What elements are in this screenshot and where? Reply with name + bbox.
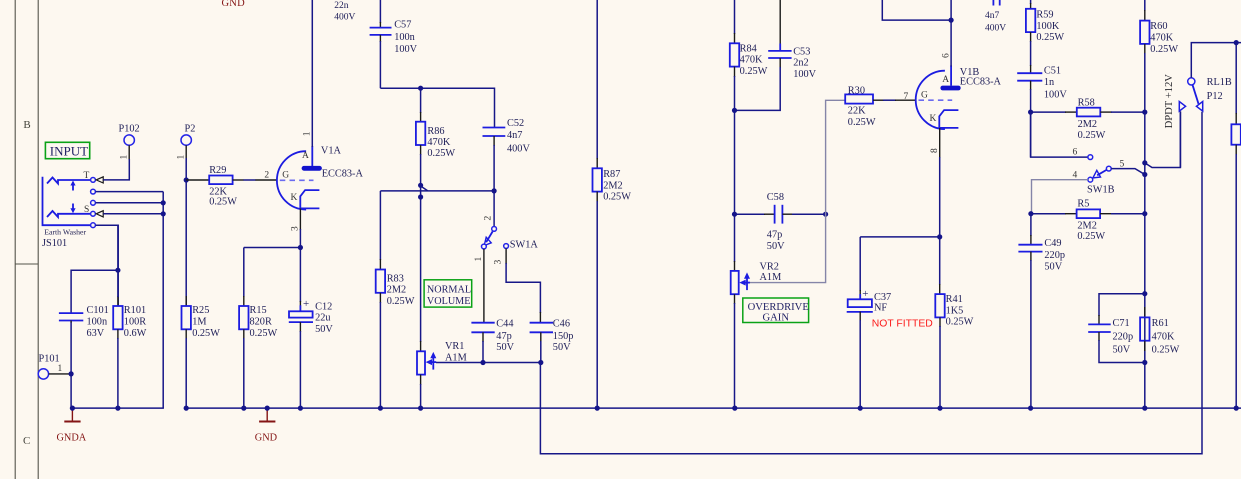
wire C57 bottom to C52 top [380, 88, 494, 127]
svg-text:+: + [303, 298, 309, 310]
switch SW1B contact 6 stub [1031, 112, 1093, 159]
svg-text:8: 8 [930, 148, 940, 153]
svg-text:R61: R61 [1152, 318, 1169, 329]
svg-text:3: 3 [290, 226, 300, 231]
wire VR2 wiper riser to R30 [749, 100, 846, 282]
capacitor C12 [289, 248, 334, 409]
ground GND (mid) [255, 408, 278, 443]
svg-text:P101: P101 [39, 354, 60, 365]
svg-text:C57: C57 [394, 20, 411, 31]
node C58 left junction [732, 212, 737, 217]
frame left border lines [15, 0, 38, 479]
wire P2 to R29 node and down to R25 [185, 158, 187, 306]
svg-text:A: A [302, 151, 309, 161]
svg-text:2M2: 2M2 [603, 180, 622, 191]
wire relay left contact to switch node [1179, 111, 1181, 167]
svg-text:A1M: A1M [760, 272, 782, 283]
wire V1B cathode node [860, 236, 940, 238]
svg-text:RL1B: RL1B [1207, 77, 1232, 88]
wire V1B anode supply [882, 0, 951, 67]
node V1B anode junction [949, 18, 954, 23]
svg-text:G: G [921, 91, 928, 101]
svg-text:4n7: 4n7 [507, 130, 522, 141]
svg-text:C: C [23, 435, 30, 447]
svg-text:2n2: 2n2 [793, 58, 808, 69]
svg-text:400V: 400V [334, 13, 355, 23]
svg-text:2M2: 2M2 [1078, 119, 1097, 130]
wire VR1 wiper line [436, 362, 541, 364]
svg-text:470K: 470K [427, 137, 450, 148]
svg-text:50V: 50V [553, 342, 571, 353]
capacitor C58 [735, 192, 826, 252]
svg-text:22u: 22u [315, 313, 330, 324]
svg-text:R59: R59 [1036, 10, 1053, 21]
resistor R58 [1031, 98, 1145, 142]
svg-text:1: 1 [474, 257, 484, 262]
svg-text:VR1: VR1 [445, 341, 464, 352]
svg-text:1: 1 [58, 364, 63, 374]
svg-text:K: K [291, 193, 298, 203]
svg-text:P2: P2 [185, 124, 196, 135]
svg-text:0.25W: 0.25W [1150, 44, 1178, 55]
svg-text:C53: C53 [793, 46, 810, 57]
svg-text:1: 1 [120, 155, 130, 160]
svg-text:C71: C71 [1113, 318, 1130, 329]
capacitor 4n7 400V (clipped) [985, 0, 1006, 34]
svg-text:470K: 470K [1152, 332, 1175, 343]
svg-text:22n: 22n [334, 1, 349, 11]
svg-text:2M2: 2M2 [387, 285, 406, 296]
svg-text:GNDA: GNDA [57, 433, 87, 444]
node R61 top junction [1142, 291, 1147, 296]
svg-text:0.25W: 0.25W [427, 148, 455, 159]
svg-text:NORMAL: NORMAL [427, 284, 471, 295]
svg-text:1K5: 1K5 [946, 305, 964, 316]
wire jack shorting bar down to GNDA bus [162, 192, 164, 409]
svg-text:0.6W: 0.6W [124, 328, 147, 339]
node P101 junction [69, 371, 74, 376]
svg-text:C46: C46 [553, 319, 570, 330]
svg-text:7: 7 [904, 92, 909, 102]
svg-text:400V: 400V [985, 24, 1006, 34]
svg-text:P102: P102 [119, 124, 140, 135]
svg-text:GAIN: GAIN [763, 313, 790, 324]
capacitor C49 [1018, 214, 1065, 408]
node SW1A common junction [492, 188, 497, 193]
svg-text:C58: C58 [767, 192, 784, 203]
svg-text:SW1B: SW1B [1087, 184, 1115, 195]
svg-text:ECC83-A: ECC83-A [960, 77, 1002, 88]
svg-text:100V: 100V [793, 69, 816, 80]
svg-text:NOT FITTED: NOT FITTED [872, 318, 933, 329]
svg-text:R60: R60 [1150, 21, 1167, 32]
ground GNDA [57, 408, 87, 443]
node R58 left junction [1028, 110, 1033, 115]
svg-text:R86: R86 [427, 126, 444, 137]
svg-text:0.25W: 0.25W [946, 317, 974, 328]
svg-text:R101: R101 [124, 305, 146, 316]
resistor R15 [239, 248, 277, 409]
svg-text:0.25W: 0.25W [387, 296, 415, 307]
capacitor C37 (not fitted) [847, 237, 933, 408]
node R86 top junction [418, 86, 423, 91]
svg-text:C52: C52 [507, 118, 524, 129]
net label OVERDRIVE GAIN [743, 298, 809, 324]
svg-text:R30: R30 [848, 85, 865, 96]
svg-text:0.25W: 0.25W [209, 197, 237, 208]
svg-text:1: 1 [303, 131, 313, 136]
svg-text:R58: R58 [1078, 98, 1095, 109]
svg-text:R41: R41 [946, 294, 963, 305]
junction dots on bus [70, 406, 1239, 411]
svg-text:100n: 100n [394, 32, 415, 43]
svg-text:0.25W: 0.25W [740, 66, 768, 77]
triode V1A ECC83-A [277, 131, 364, 231]
svg-text:1M: 1M [192, 317, 206, 328]
node R5 left junction [1028, 211, 1033, 216]
svg-text:R84: R84 [740, 43, 757, 54]
wire SW1B pole 5 jog [1111, 169, 1145, 175]
resistor R41 [935, 237, 973, 408]
node R58 right junction [1142, 110, 1147, 115]
svg-text:50V: 50V [767, 241, 785, 252]
potentiometer VR1 A1M [417, 197, 467, 408]
capacitor C52 [483, 118, 531, 191]
svg-text:ECC83-A: ECC83-A [322, 169, 364, 180]
node P2/R29 junction [184, 177, 189, 182]
wire main ground bus [186, 407, 1241, 409]
svg-text:100V: 100V [1044, 90, 1067, 101]
svg-text:R29: R29 [209, 165, 226, 176]
svg-text:C37: C37 [874, 292, 891, 303]
svg-text:INPUT: INPUT [50, 144, 88, 159]
switch SW1A [474, 191, 540, 323]
relay RL1B P12 [1179, 77, 1232, 111]
svg-text:470K: 470K [740, 55, 763, 66]
svg-text:4n7: 4n7 [985, 11, 1000, 21]
svg-text:R5: R5 [1077, 199, 1089, 210]
resistor R61 [1140, 307, 1180, 355]
svg-text:100K: 100K [1036, 21, 1059, 32]
wire earth washer to R101 [96, 225, 119, 306]
net label NORMAL VOLUME [424, 280, 472, 307]
node R84/C53 bottom junction [732, 108, 737, 113]
wire V1A cathode node [244, 247, 301, 249]
svg-text:R83: R83 [387, 273, 404, 284]
svg-text:0.25W: 0.25W [250, 328, 278, 339]
wire V1A anode supply line [311, 0, 313, 147]
triode V1B ECC83-A [916, 53, 1002, 153]
node jack contact junctions [161, 200, 166, 205]
svg-text:+: + [862, 288, 868, 300]
svg-text:C101: C101 [87, 305, 109, 316]
svg-text:50V: 50V [315, 324, 333, 335]
node cathode junction [298, 245, 303, 250]
svg-text:22K: 22K [848, 106, 866, 117]
capacitor C51 [1017, 65, 1067, 157]
connector P2 [177, 124, 196, 161]
jack JS101 body [42, 171, 103, 249]
svg-text:100n: 100n [87, 317, 108, 328]
capacitor C46 [530, 319, 574, 363]
wire V1B cathode lead [939, 128, 941, 237]
node C58 right junction [823, 212, 828, 217]
resistor R59 [1026, 0, 1065, 66]
node V1B cathode junction [937, 234, 942, 239]
wire relay feed jog [1145, 112, 1181, 168]
wire P101/C101 node to bus [70, 322, 72, 408]
capacitor C53 [735, 0, 817, 110]
svg-text:0.25W: 0.25W [1036, 32, 1064, 43]
wire mix node horizontal [380, 190, 494, 192]
svg-text:150p: 150p [553, 331, 574, 342]
svg-text:47p: 47p [496, 331, 511, 342]
capacitor C71 [1088, 294, 1145, 363]
svg-text:2M2: 2M2 [1077, 220, 1096, 231]
node right edge junction [1234, 40, 1239, 45]
svg-text:0.25W: 0.25W [1078, 130, 1106, 141]
svg-text:6: 6 [942, 53, 952, 58]
svg-text:A1M: A1M [445, 352, 467, 363]
svg-text:0.25W: 0.25W [848, 117, 876, 128]
resistor right edge (clipped) [1231, 43, 1240, 409]
svg-text:2: 2 [483, 216, 493, 221]
svg-text:R25: R25 [192, 305, 209, 316]
svg-text:47p: 47p [767, 230, 782, 241]
resistor R86 [416, 88, 456, 197]
capacitor C57 [370, 0, 418, 88]
svg-text:K: K [930, 114, 937, 124]
capacitor C101 [59, 270, 118, 339]
svg-text:400V: 400V [507, 143, 530, 154]
resistor R84 [730, 0, 768, 214]
svg-text:GND: GND [222, 0, 246, 9]
svg-text:OVERDRIVE: OVERDRIVE [748, 302, 809, 313]
svg-text:C51: C51 [1044, 66, 1061, 77]
wire jack sleeve [103, 213, 163, 215]
svg-text:T: T [84, 171, 90, 181]
svg-text:Earth Washer: Earth Washer [44, 228, 86, 237]
node SW1B jog junctions [1142, 160, 1147, 165]
resistor R60 [1140, 0, 1178, 408]
wire jack tip to P102 [103, 159, 129, 180]
node R61 bottom junction [1142, 360, 1147, 365]
svg-text:5: 5 [1120, 159, 1125, 169]
svg-text:S: S [84, 205, 89, 215]
svg-text:63V: 63V [87, 328, 105, 339]
resistor R29 [186, 165, 277, 207]
svg-text:3: 3 [494, 260, 504, 265]
svg-text:0.25W: 0.25W [192, 328, 220, 339]
svg-text:820R: 820R [250, 317, 272, 328]
svg-text:220p: 220p [1113, 332, 1134, 343]
resistor R5 [1032, 199, 1145, 242]
svg-text:50V: 50V [1044, 262, 1062, 273]
svg-text:R87: R87 [603, 169, 620, 180]
svg-text:GND: GND [255, 433, 278, 444]
resistor R25 [182, 296, 221, 408]
svg-text:C12: C12 [315, 302, 332, 313]
node R86 bottom junctions with jog [418, 183, 423, 188]
node C101 top junction [115, 268, 120, 273]
svg-text:DPDT +12V: DPDT +12V [1164, 74, 1175, 129]
resistor R101 [113, 225, 146, 408]
wire left GNDA bus segment [72, 407, 163, 409]
svg-text:B: B [23, 119, 30, 131]
switch SW1B [1073, 159, 1125, 195]
svg-text:SW1A: SW1A [510, 240, 539, 251]
svg-text:100R: 100R [124, 317, 146, 328]
svg-text:0.25W: 0.25W [1152, 344, 1180, 355]
wire relay coil common up and right [1191, 43, 1241, 78]
svg-text:50V: 50V [496, 342, 514, 353]
resistor R83 [376, 191, 415, 408]
node R5 right junction [1142, 211, 1147, 216]
potentiometer VR2 A1M [731, 214, 782, 408]
svg-text:470K: 470K [1150, 33, 1173, 44]
svg-text:0.25W: 0.25W [603, 192, 631, 203]
svg-text:4: 4 [1073, 170, 1078, 180]
svg-text:100V: 100V [394, 44, 417, 55]
svg-text:R15: R15 [250, 305, 267, 316]
wire lower signal rail [540, 112, 1202, 454]
svg-text:NF: NF [874, 302, 887, 313]
svg-text:VR2: VR2 [760, 262, 779, 273]
wire V1A cathode lead [299, 208, 301, 248]
connector P101 [38, 354, 71, 380]
svg-text:V1A: V1A [321, 146, 342, 157]
svg-text:P12: P12 [1207, 91, 1223, 102]
svg-text:0.25W: 0.25W [1077, 231, 1105, 242]
svg-text:1: 1 [177, 155, 187, 160]
net label INPUT [45, 142, 89, 158]
svg-text:6: 6 [1073, 148, 1078, 158]
svg-text:220p: 220p [1044, 250, 1065, 261]
svg-text:50V: 50V [1113, 344, 1131, 355]
svg-text:G: G [282, 171, 289, 181]
capacitor C44 [471, 319, 514, 363]
wire SW1B contact 4 branch [1032, 180, 1088, 214]
resistor R87 [593, 0, 632, 408]
wire jack contact 2 [96, 191, 164, 193]
svg-text:C49: C49 [1044, 238, 1061, 249]
connector P102 [119, 124, 140, 161]
node wiper junctions [480, 360, 485, 365]
svg-text:JS101: JS101 [42, 238, 67, 249]
svg-text:2: 2 [264, 171, 269, 181]
svg-text:C44: C44 [496, 319, 513, 330]
resistor R30 [845, 85, 916, 128]
svg-text:1n: 1n [1044, 77, 1054, 88]
wire jack contact 3 [96, 202, 164, 204]
svg-text:VOLUME: VOLUME [427, 296, 471, 307]
svg-text:A: A [942, 75, 949, 85]
